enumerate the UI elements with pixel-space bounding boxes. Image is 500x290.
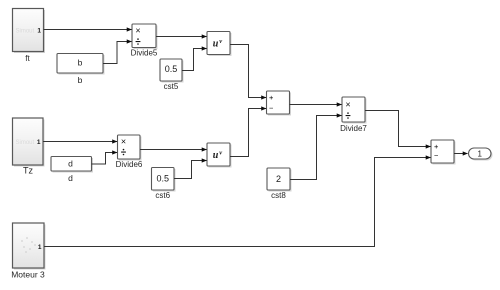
svg-text:d: d: [68, 159, 73, 169]
svg-text:−: −: [269, 103, 274, 112]
math power block u^v #1: [207, 32, 232, 57]
svg-text:×: ×: [345, 100, 350, 110]
svg-text:Simout: Simout: [16, 28, 35, 34]
divide block Divide5: [131, 24, 158, 58]
wire u^v2 -> Sum1: [230, 109, 266, 157]
wire d -> Divide6: [92, 153, 118, 165]
subsystem Moteur 3: [11, 223, 45, 280]
wire ft -> Divide5: [44, 29, 132, 31]
svg-text:b: b: [78, 75, 83, 85]
wire u^v1 -> Sum1: [230, 45, 266, 98]
wire Moteur3 -> Sum2: [44, 158, 431, 247]
subtract block Sum2: [431, 140, 456, 165]
svg-text:×: ×: [121, 137, 126, 147]
svg-text:cst8: cst8: [271, 191, 286, 200]
svg-text:Moteur 3: Moteur 3: [11, 270, 45, 280]
wire b -> Divide5: [103, 42, 132, 64]
svg-text:Divide5: Divide5: [131, 49, 158, 58]
svg-text:Divide6: Divide6: [116, 160, 143, 169]
subsystem Tz: [13, 118, 45, 176]
math power block u^v #2: [207, 143, 232, 168]
wire Tz -> Divide6: [43, 141, 117, 143]
svg-text:−: −: [434, 151, 439, 160]
wire cst5 -> u^v1: [182, 49, 207, 71]
subsystem ft: [13, 9, 46, 64]
from block b: [57, 54, 105, 86]
svg-text:2: 2: [276, 174, 281, 184]
svg-text:1: 1: [478, 150, 483, 159]
svg-text:+: +: [269, 93, 274, 102]
svg-text:u: u: [213, 150, 219, 161]
svg-text:+: +: [434, 142, 439, 151]
svg-text:Tz: Tz: [23, 166, 33, 176]
svg-text:×: ×: [135, 26, 140, 36]
constant cst8: [267, 168, 292, 200]
svg-text:Simout: Simout: [16, 140, 35, 146]
svg-text:1: 1: [37, 139, 41, 146]
svg-text:Divide7: Divide7: [340, 124, 367, 133]
output port 1: [469, 148, 493, 161]
svg-text:b: b: [78, 58, 83, 68]
wire Divide7 -> Sum2: [365, 111, 431, 147]
divide block Divide6: [116, 135, 143, 169]
divide block Divide7: [340, 97, 367, 133]
constant cst6: [152, 168, 176, 201]
constant cst5: [160, 59, 184, 91]
wire Divide5 -> u^v1: [156, 36, 207, 38]
svg-text:0.5: 0.5: [165, 64, 178, 74]
svg-text:cst6: cst6: [155, 191, 170, 200]
wire Divide6 -> u^v2: [140, 149, 207, 151]
svg-text:ft: ft: [25, 54, 30, 63]
svg-text:0.5: 0.5: [156, 174, 169, 184]
wire Sum1 -> Divide7: [290, 104, 342, 106]
svg-text:d: d: [68, 173, 73, 183]
svg-text:cst5: cst5: [164, 82, 179, 91]
wire Sum2 -> outport: [454, 153, 468, 155]
subtract block Sum1: [267, 91, 292, 116]
svg-text:1: 1: [38, 244, 42, 251]
wire cst6 -> u^v2: [174, 161, 207, 179]
from block d: [51, 157, 93, 184]
svg-text:v: v: [219, 149, 222, 156]
svg-text:1: 1: [37, 27, 41, 34]
svg-text:u: u: [213, 39, 219, 50]
svg-text:v: v: [219, 38, 222, 45]
wire cst8 -> Divide7: [290, 116, 342, 180]
